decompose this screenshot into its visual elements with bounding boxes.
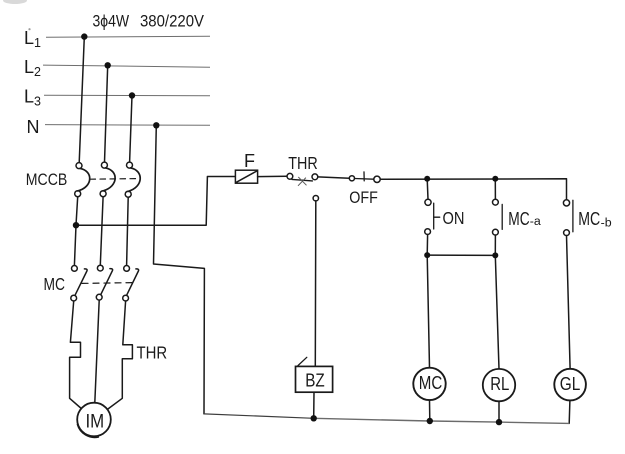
svg-text:THR: THR bbox=[288, 153, 318, 173]
svg-text:GL: GL bbox=[560, 374, 581, 394]
svg-text:MC: MC bbox=[419, 372, 443, 393]
svg-text:N: N bbox=[27, 117, 40, 137]
svg-text:RL: RL bbox=[490, 374, 509, 394]
svg-text:ON: ON bbox=[443, 208, 465, 228]
svg-text:-b: -b bbox=[601, 217, 612, 229]
svg-text:F: F bbox=[244, 151, 255, 171]
svg-text:IM: IM bbox=[85, 412, 104, 433]
svg-text:THR: THR bbox=[137, 343, 168, 363]
svg-text:3ϕ4W: 3ϕ4W bbox=[93, 13, 130, 31]
svg-text:-a: -a bbox=[530, 216, 542, 228]
svg-text:380/220V: 380/220V bbox=[140, 13, 204, 31]
svg-text:OFF: OFF bbox=[349, 189, 378, 207]
svg-text:MC: MC bbox=[44, 274, 66, 294]
svg-text:MC: MC bbox=[578, 208, 600, 229]
svg-text:MCCB: MCCB bbox=[26, 170, 68, 189]
svg-text:BZ: BZ bbox=[305, 370, 325, 390]
svg-text:MC: MC bbox=[508, 208, 529, 229]
